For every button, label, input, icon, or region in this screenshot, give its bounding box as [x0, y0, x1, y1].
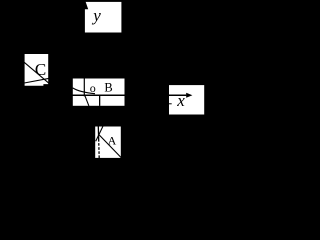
C box line 1: [24, 62, 49, 83]
svg-text:B: B: [104, 81, 112, 95]
vertical line in A box: [97, 126, 99, 139]
svg-text:y: y: [91, 6, 101, 25]
vertical line below axis: [99, 96, 101, 106]
label box y: [84, 2, 121, 33]
steep diagonal below origin: [85, 96, 89, 106]
svg-text:A: A: [108, 134, 117, 148]
A box back-diagonal: [96, 126, 103, 141]
label box x: [169, 85, 204, 114]
C box line 2: [24, 78, 49, 83]
y-axis line: [83, 0, 85, 96]
A box main diagonal: [99, 135, 121, 158]
svg-text:x: x: [176, 91, 185, 110]
label box C: [25, 54, 49, 86]
tick at x box left edge: [169, 103, 172, 105]
label box o B (center): [73, 79, 125, 106]
svg-text:o: o: [90, 81, 96, 95]
label box A: [95, 127, 121, 158]
svg-text:C: C: [35, 60, 46, 79]
curve approaching origin: [73, 88, 95, 94]
x-axis line: [60, 94, 186, 96]
x-axis arrowhead: [186, 93, 192, 98]
dashed vertical in A box lower part: [98, 139, 101, 158]
y-axis arrowhead: [80, 0, 88, 9]
